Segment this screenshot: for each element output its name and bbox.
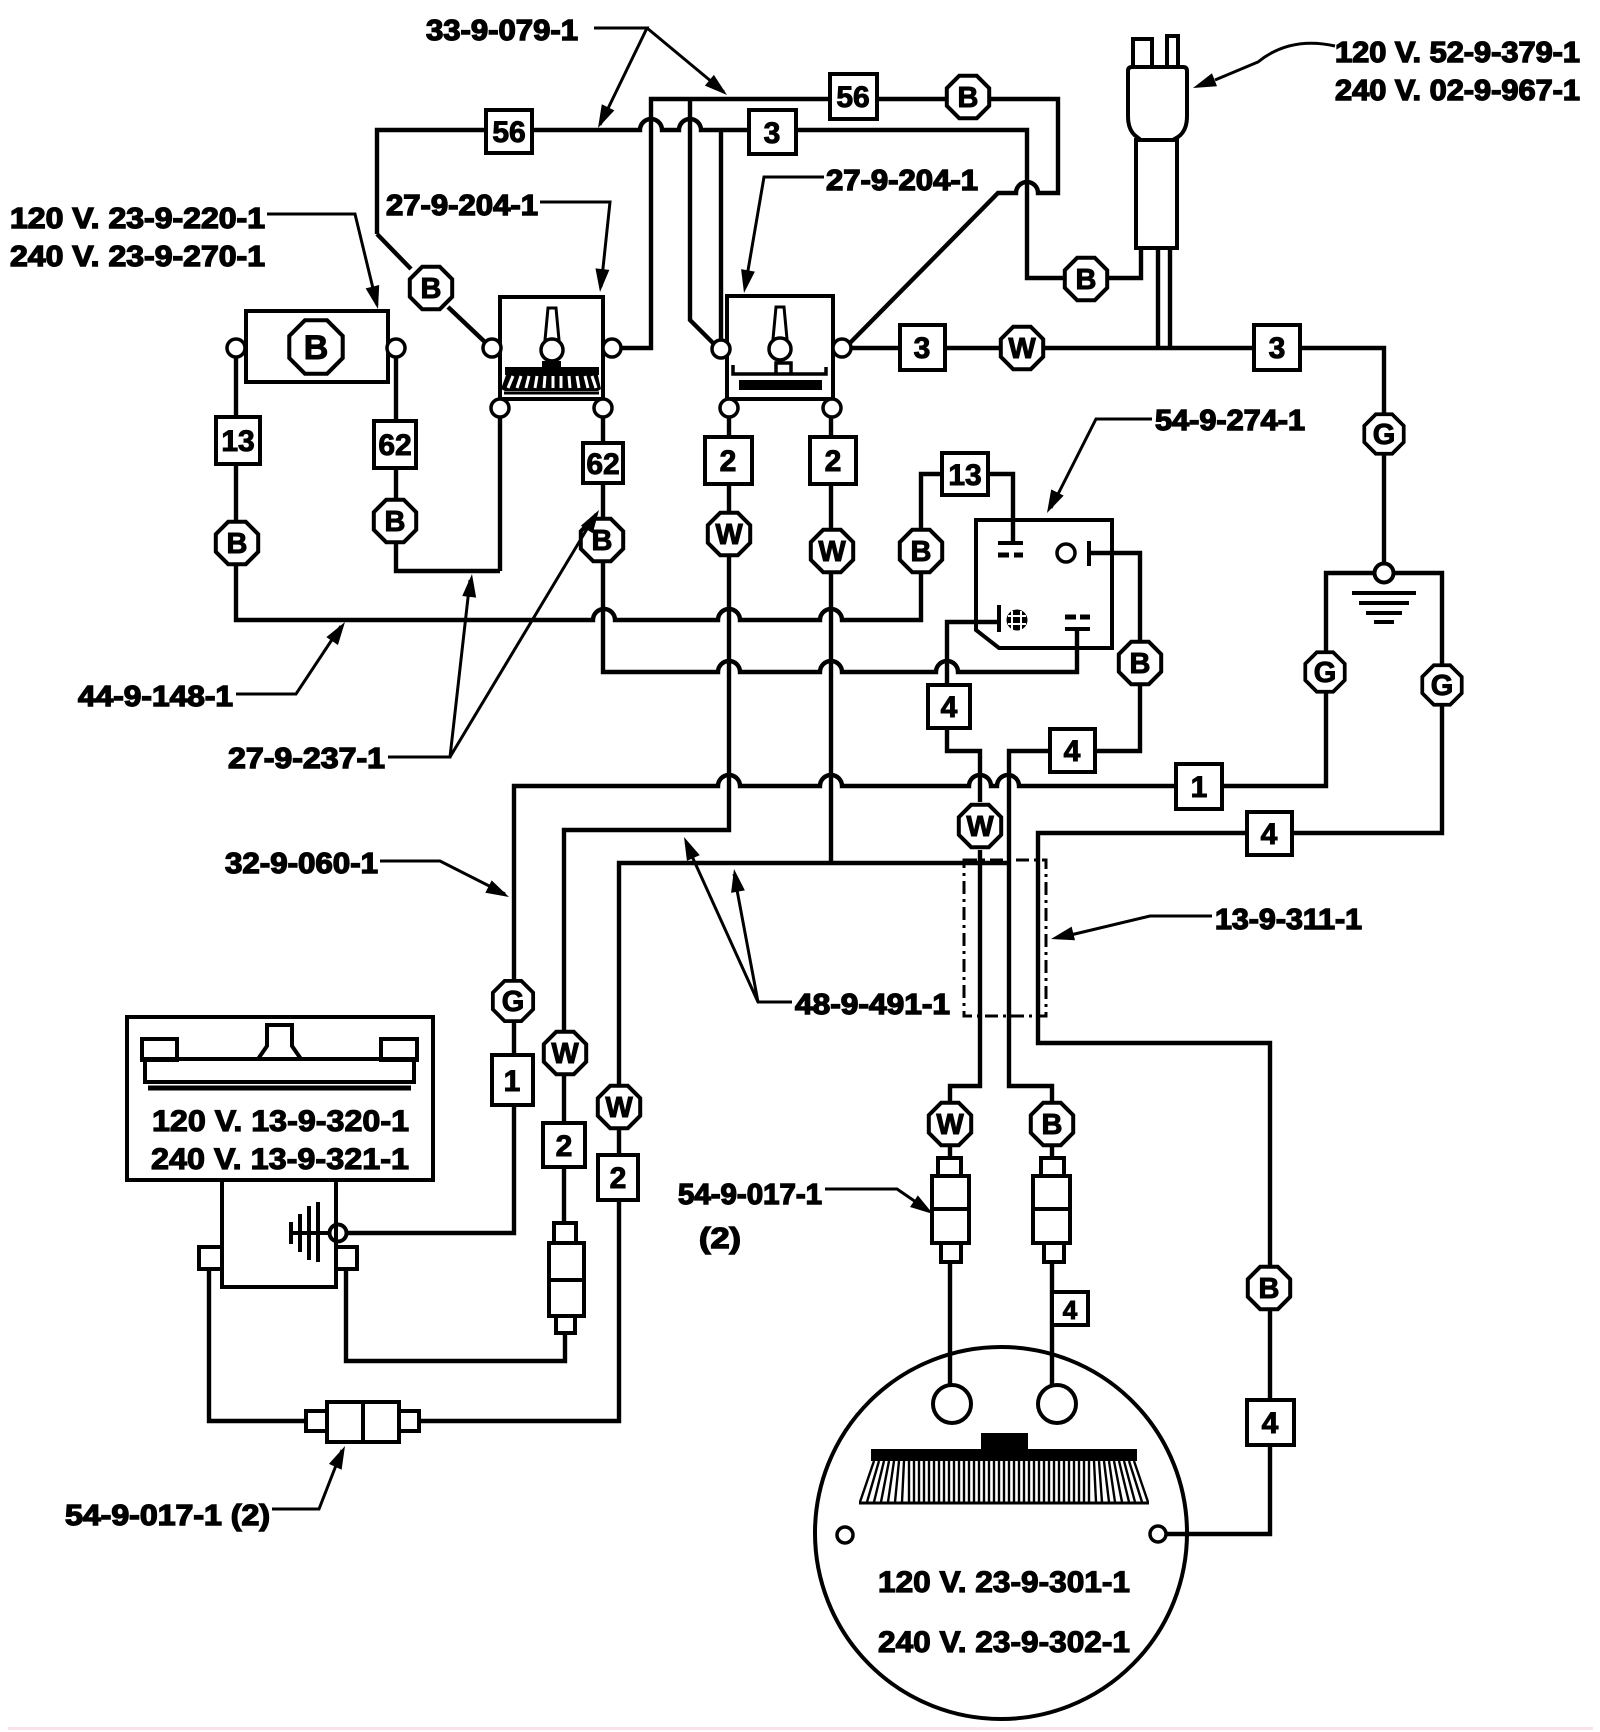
svg-text:120 V. 23-9-301-1: 120 V. 23-9-301-1 (878, 1566, 1130, 1599)
svg-text:33-9-079-1: 33-9-079-1 (426, 15, 578, 47)
svg-text:B: B (227, 528, 248, 560)
svg-text:56: 56 (492, 116, 525, 149)
svg-text:27-9-237-1: 27-9-237-1 (228, 743, 385, 775)
svg-text:B: B (911, 536, 932, 568)
svg-text:240 V. 23-9-302-1: 240 V. 23-9-302-1 (878, 1626, 1130, 1659)
svg-text:32-9-060-1: 32-9-060-1 (225, 848, 378, 880)
svg-text:48-9-491-1: 48-9-491-1 (795, 989, 950, 1021)
svg-text:2: 2 (720, 445, 737, 478)
svg-text:240 V. 13-9-321-1: 240 V. 13-9-321-1 (151, 1143, 409, 1176)
svg-text:54-9-274-1: 54-9-274-1 (1155, 405, 1305, 437)
svg-text:13: 13 (221, 425, 254, 458)
svg-text:240 V. 02-9-967-1: 240 V. 02-9-967-1 (1335, 75, 1580, 107)
svg-text:W: W (551, 1038, 579, 1070)
svg-text:(2): (2) (699, 1223, 741, 1255)
svg-text:2: 2 (825, 445, 842, 478)
svg-text:W: W (605, 1092, 633, 1124)
svg-text:3: 3 (914, 332, 931, 365)
svg-text:2: 2 (610, 1162, 627, 1195)
svg-text:4: 4 (941, 691, 958, 724)
svg-text:2: 2 (556, 1130, 573, 1163)
svg-text:B: B (385, 506, 406, 538)
svg-text:120 V. 13-9-320-1: 120 V. 13-9-320-1 (152, 1105, 409, 1138)
svg-text:240 V. 23-9-270-1: 240 V. 23-9-270-1 (10, 241, 265, 273)
svg-text:B: B (1259, 1273, 1280, 1305)
svg-text:1: 1 (504, 1065, 521, 1098)
svg-text:120 V. 52-9-379-1: 120 V. 52-9-379-1 (1335, 37, 1580, 69)
svg-text:G: G (1431, 670, 1454, 702)
svg-text:27-9-204-1: 27-9-204-1 (826, 165, 978, 197)
svg-text:B: B (1076, 264, 1097, 296)
svg-text:G: G (1314, 657, 1337, 689)
svg-text:1: 1 (1191, 771, 1208, 804)
svg-text:W: W (936, 1109, 964, 1141)
svg-text:27-9-204-1: 27-9-204-1 (386, 190, 538, 222)
svg-text:3: 3 (764, 117, 781, 150)
svg-text:62: 62 (586, 448, 619, 481)
svg-text:W: W (818, 536, 846, 568)
svg-text:G: G (502, 986, 525, 1018)
svg-text:B: B (1042, 1109, 1063, 1141)
svg-text:G: G (1373, 419, 1396, 451)
svg-text:44-9-148-1: 44-9-148-1 (78, 681, 233, 713)
svg-text:B: B (1130, 648, 1151, 680)
svg-text:B: B (958, 82, 979, 114)
svg-text:3: 3 (1269, 332, 1286, 365)
svg-text:54-9-017-1 (2): 54-9-017-1 (2) (65, 1500, 270, 1532)
svg-text:W: W (1008, 333, 1036, 365)
svg-text:62: 62 (378, 429, 411, 462)
svg-text:B: B (421, 273, 442, 305)
svg-text:13-9-311-1: 13-9-311-1 (1215, 904, 1362, 936)
svg-text:4: 4 (1064, 735, 1081, 768)
svg-text:B: B (304, 329, 329, 367)
svg-text:4: 4 (1262, 1407, 1279, 1440)
svg-text:13: 13 (948, 459, 981, 492)
svg-text:B: B (592, 525, 613, 557)
svg-text:W: W (715, 519, 743, 551)
svg-text:4: 4 (1063, 1295, 1078, 1325)
svg-text:56: 56 (836, 81, 869, 114)
svg-text:4: 4 (1261, 818, 1278, 851)
svg-text:120 V. 23-9-220-1: 120 V. 23-9-220-1 (10, 203, 265, 235)
svg-text:W: W (966, 811, 994, 843)
svg-text:54-9-017-1: 54-9-017-1 (678, 1179, 822, 1211)
